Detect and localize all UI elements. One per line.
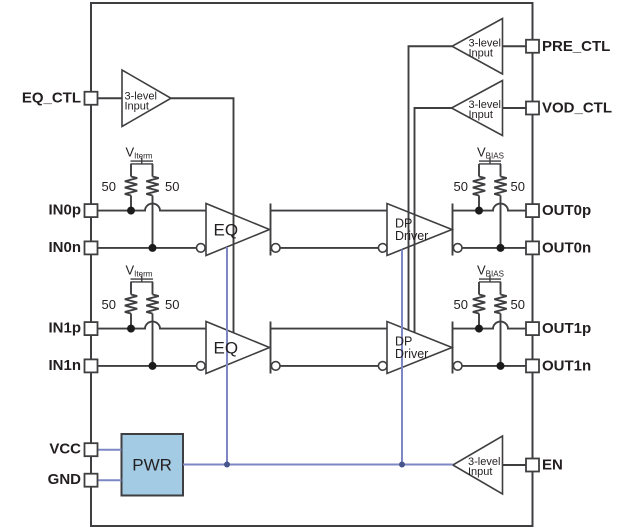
wire VOD_CTL pin to U3 <box>503 107 527 109</box>
resistor R3 50 ohm (OUT0p bias) <box>473 177 485 196</box>
wire R5 lead down to IN1p node <box>130 314 132 329</box>
svg-text:PRE_CTL: PRE_CTL <box>542 38 610 55</box>
DP Driver 1 output bar <box>452 322 454 374</box>
svg-text:50: 50 <box>511 297 525 312</box>
svg-text:EQ: EQ <box>214 221 239 240</box>
op-amp EQ0 equalizer <box>206 204 270 256</box>
wire VIterm rail to resistors (channel 0) <box>130 164 132 177</box>
wire VBIAS rail to resistors (channel 1) <box>478 282 480 295</box>
wire EQ1 output n to DP Driver 1 <box>280 365 378 367</box>
junction node IN1p / R5 <box>127 325 135 333</box>
pin VCC <box>85 443 98 456</box>
pin IN0n <box>85 241 98 254</box>
svg-text:EN: EN <box>542 457 563 474</box>
wire R4 lead down across OUT0p to OUT0n node <box>500 196 502 248</box>
wire R6 lead down across IN1p to IN1n node <box>152 314 154 366</box>
svg-text:50: 50 <box>454 297 468 312</box>
wire EQ1 output p to DP Driver 1 <box>271 328 388 330</box>
pin GND <box>85 474 98 487</box>
3-level input buffer U1 (EQ_CTL) <box>122 70 171 127</box>
wire R2 lead down across IN0p to IN0n node <box>152 196 154 248</box>
junction node OUT1p / R7 <box>475 325 483 333</box>
svg-text:Driver: Driver <box>395 229 428 243</box>
svg-text:VCC: VCC <box>49 441 81 458</box>
pin OUT0n <box>526 241 539 254</box>
EQ0 output bar <box>270 204 272 256</box>
wire DP Driver 0 output n to OUT0n pin <box>462 247 526 249</box>
svg-text:Input: Input <box>469 48 493 60</box>
pin IN0p <box>85 204 98 217</box>
svg-text:50: 50 <box>102 179 116 194</box>
op-amp DP Driver 0 <box>387 204 452 256</box>
resistor R4 50 ohm (OUT0n bias) <box>494 177 506 196</box>
pin EN <box>526 459 539 472</box>
resistor R6 50 ohm (IN1n termination) <box>146 295 158 314</box>
svg-text:VBIAS: VBIAS <box>477 262 504 278</box>
wire DP Driver 1 output p to OUT1p pin (hops over R lead) <box>453 322 527 329</box>
3-level input buffer U3 (VOD_CTL) <box>452 81 503 136</box>
power rail VIterm (channel 0) <box>131 160 154 162</box>
pin OUT0p <box>526 204 539 217</box>
svg-text:Input: Input <box>469 109 493 121</box>
wire EQ0 output n to DP Driver 0 <box>280 247 378 249</box>
wire IN1n pin to EQ1 inverting input <box>98 365 197 367</box>
pin EQ_CTL <box>85 92 98 105</box>
svg-text:50: 50 <box>165 297 179 312</box>
wire DP Driver 0 output p to OUT0p pin (hops over R lead) <box>453 204 527 211</box>
wire DP Driver 1 output n to OUT1n pin <box>462 365 526 367</box>
junction power rail / DP feed <box>399 462 405 468</box>
inverting input bubble EQ1 <box>197 362 206 371</box>
resistor R8 50 ohm (OUT1n bias) <box>494 295 506 314</box>
svg-text:VIterm: VIterm <box>126 144 153 160</box>
svg-text:50: 50 <box>511 179 525 194</box>
inverting output bubble EQ0 <box>271 244 280 253</box>
svg-text:PWR: PWR <box>132 456 172 475</box>
junction node IN0p / R1 <box>127 207 135 215</box>
pin OUT1p <box>526 322 539 335</box>
DP Driver 0 output bar <box>452 204 454 256</box>
pin OUT1n <box>526 359 539 372</box>
junction node OUT1n / R8 <box>497 362 505 370</box>
svg-text:50: 50 <box>454 179 468 194</box>
svg-text:Input: Input <box>468 466 492 478</box>
junction node IN1n / R6 <box>149 362 157 370</box>
inverting input bubble DP Driver 0 <box>378 244 387 253</box>
svg-text:OUT1p: OUT1p <box>542 320 591 337</box>
PWR power block <box>122 434 184 496</box>
wire power feed up to DP drivers (blue) <box>401 250 403 465</box>
wire PRE_CTL control net to DP drivers <box>409 46 453 330</box>
wire EQ0 output p to DP Driver 0 <box>271 210 388 212</box>
resistor R7 50 ohm (OUT1p bias) <box>473 295 485 314</box>
junction node OUT0p / R3 <box>475 207 483 215</box>
pin IN1n <box>85 359 98 372</box>
inverting input bubble EQ0 <box>197 244 206 253</box>
svg-text:OUT0n: OUT0n <box>542 239 591 256</box>
op-amp EQ1 equalizer <box>206 322 270 374</box>
wire IN0n pin to EQ0 inverting input <box>98 247 197 249</box>
wire VCC pin to PWR (blue) <box>98 449 122 451</box>
power rail VBIAS (channel 1) <box>479 278 501 280</box>
inverting output bubble DP Driver 1 <box>453 362 462 371</box>
pin VOD_CTL <box>526 102 539 115</box>
svg-text:IN0p: IN0p <box>48 202 81 219</box>
svg-text:OUT0p: OUT0p <box>542 202 591 219</box>
wire GND pin to PWR (blue) <box>98 479 122 481</box>
op-amp DP Driver 1 <box>387 322 452 374</box>
power rail VIterm (channel 1) <box>131 278 154 280</box>
svg-text:Input: Input <box>125 100 149 112</box>
wire VOD_CTL control net to DP drivers <box>415 108 452 333</box>
wire EN pin to U4 <box>503 464 527 466</box>
wire power rail PWR to EN buffer (blue) <box>183 464 453 466</box>
svg-text:IN0n: IN0n <box>48 239 81 256</box>
svg-text:EQ_CTL: EQ_CTL <box>22 89 81 106</box>
wire VIterm rail to resistors (channel 1) <box>130 282 132 295</box>
IC boundary box <box>91 3 533 526</box>
svg-text:OUT1n: OUT1n <box>542 357 591 374</box>
wire R8 lead down across OUT1p to OUT1n node <box>500 314 502 366</box>
junction node IN0n / R2 <box>149 244 157 252</box>
wire PRE_CTL pin to U2 <box>503 45 527 47</box>
3-level input buffer U2 (PRE_CTL) <box>452 19 503 75</box>
svg-text:VOD_CTL: VOD_CTL <box>542 100 612 117</box>
svg-text:IN1p: IN1p <box>48 320 81 337</box>
svg-text:50: 50 <box>165 179 179 194</box>
svg-text:EQ: EQ <box>214 339 239 358</box>
resistor R2 50 ohm (IN0n termination) <box>146 177 158 196</box>
pin IN1p <box>85 322 98 335</box>
wire IN0p pin to EQ0 input (hops over R lead) <box>98 204 207 211</box>
wire R1 lead down to IN0p node <box>130 196 132 211</box>
resistor R1 50 ohm (IN0p termination) <box>125 177 137 196</box>
wire R3 lead down to OUT0p node <box>478 196 480 211</box>
wire EQ_CTL control net to EQ0/EQ1 <box>171 98 234 333</box>
inverting input bubble DP Driver 1 <box>378 362 387 371</box>
junction node OUT0n / R4 <box>497 244 505 252</box>
svg-text:50: 50 <box>102 297 116 312</box>
inverting output bubble EQ1 <box>271 362 280 371</box>
EQ1 output bar <box>270 322 272 374</box>
wire IN1p pin to EQ1 input (hops over R lead) <box>98 322 207 329</box>
wire VBIAS rail to resistors (channel 0) <box>478 164 480 177</box>
power rail VBIAS (channel 0) <box>479 160 501 162</box>
wire R7 lead down to OUT1p node <box>478 314 480 329</box>
svg-text:Driver: Driver <box>395 347 428 361</box>
pin PRE_CTL <box>526 40 539 53</box>
svg-text:VIterm: VIterm <box>126 262 153 278</box>
wire power feed up to EQ0/EQ1 (blue) <box>226 247 228 465</box>
resistor R5 50 ohm (IN1p termination) <box>125 295 137 314</box>
junction power rail / EQ feed <box>224 462 230 468</box>
svg-text:GND: GND <box>48 471 82 488</box>
svg-text:VBIAS: VBIAS <box>477 144 504 160</box>
3-level input buffer U4 (EN) <box>453 436 503 494</box>
wire EQ_CTL pin to U1 <box>98 97 123 99</box>
svg-text:IN1n: IN1n <box>48 357 81 374</box>
inverting output bubble DP Driver 0 <box>453 244 462 253</box>
